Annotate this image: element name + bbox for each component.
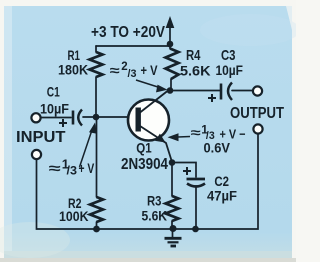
svg-text:≈: ≈ (49, 160, 61, 176)
svg-text:+ V: + V (141, 62, 159, 78)
svg-text:/3: /3 (128, 68, 137, 80)
svg-text:5.6K: 5.6K (180, 63, 211, 79)
svg-text:+ V: + V (79, 160, 95, 176)
svg-text:180K: 180K (58, 62, 88, 78)
svg-text:R3: R3 (147, 193, 162, 209)
svg-text:47µF: 47µF (207, 188, 237, 204)
svg-text:OUTPUT: OUTPUT (230, 105, 284, 122)
svg-text:≈: ≈ (110, 63, 121, 78)
svg-text:/3: /3 (67, 166, 78, 178)
svg-text:≈: ≈ (191, 125, 201, 140)
svg-text:+3 TO +20V: +3 TO +20V (91, 24, 165, 41)
svg-text:10µF: 10µF (40, 101, 69, 117)
svg-text:5.6K: 5.6K (142, 208, 168, 224)
svg-text:INPUT: INPUT (16, 129, 66, 146)
svg-text:100K: 100K (59, 208, 89, 224)
svg-text:Q1: Q1 (136, 140, 152, 156)
svg-text:0.6V: 0.6V (204, 140, 231, 156)
svg-text:C1: C1 (47, 84, 60, 100)
svg-text:10µF: 10µF (216, 62, 244, 78)
svg-text:2N3904: 2N3904 (121, 156, 168, 173)
svg-text:R4: R4 (186, 47, 201, 64)
